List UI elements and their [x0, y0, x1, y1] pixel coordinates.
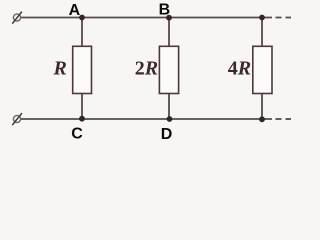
svg-text:B: B: [159, 2, 171, 19]
svg-text:A: A: [69, 2, 81, 19]
svg-text:R: R: [53, 58, 67, 80]
svg-text:4R: 4R: [228, 58, 251, 80]
svg-text:C: C: [71, 126, 83, 143]
svg-text:D: D: [161, 126, 173, 143]
svg-text:2R: 2R: [135, 58, 158, 80]
